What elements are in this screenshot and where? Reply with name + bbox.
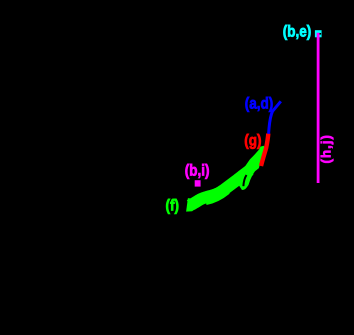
svg-text:(g): (g) — [244, 131, 261, 149]
vertical magenta line — [317, 33, 320, 183]
curve segment G (red) — [261, 134, 268, 167]
curve segment AD (blue) — [269, 101, 281, 134]
magenta filled square marker at (b,i) — [195, 180, 201, 186]
svg-text:(b,e): (b,e) — [283, 22, 312, 40]
svg-text:(a,d): (a,d) — [245, 95, 274, 113]
black notch inside green band — [243, 175, 246, 186]
svg-text:(h,j): (h,j) — [318, 134, 333, 163]
green band left end face — [186, 198, 196, 212]
cyan filled square marker at (b,e) — [315, 30, 322, 37]
black dot inside marker — [320, 33, 322, 35]
svg-text:(f): (f) — [166, 196, 180, 214]
green band bottom bulge (mid) — [206, 192, 228, 203]
svg-text:(b,i): (b,i) — [185, 161, 210, 179]
curve segment F (thick green band) — [190, 170, 250, 205]
green steep section and lower lobe — [236, 146, 265, 190]
